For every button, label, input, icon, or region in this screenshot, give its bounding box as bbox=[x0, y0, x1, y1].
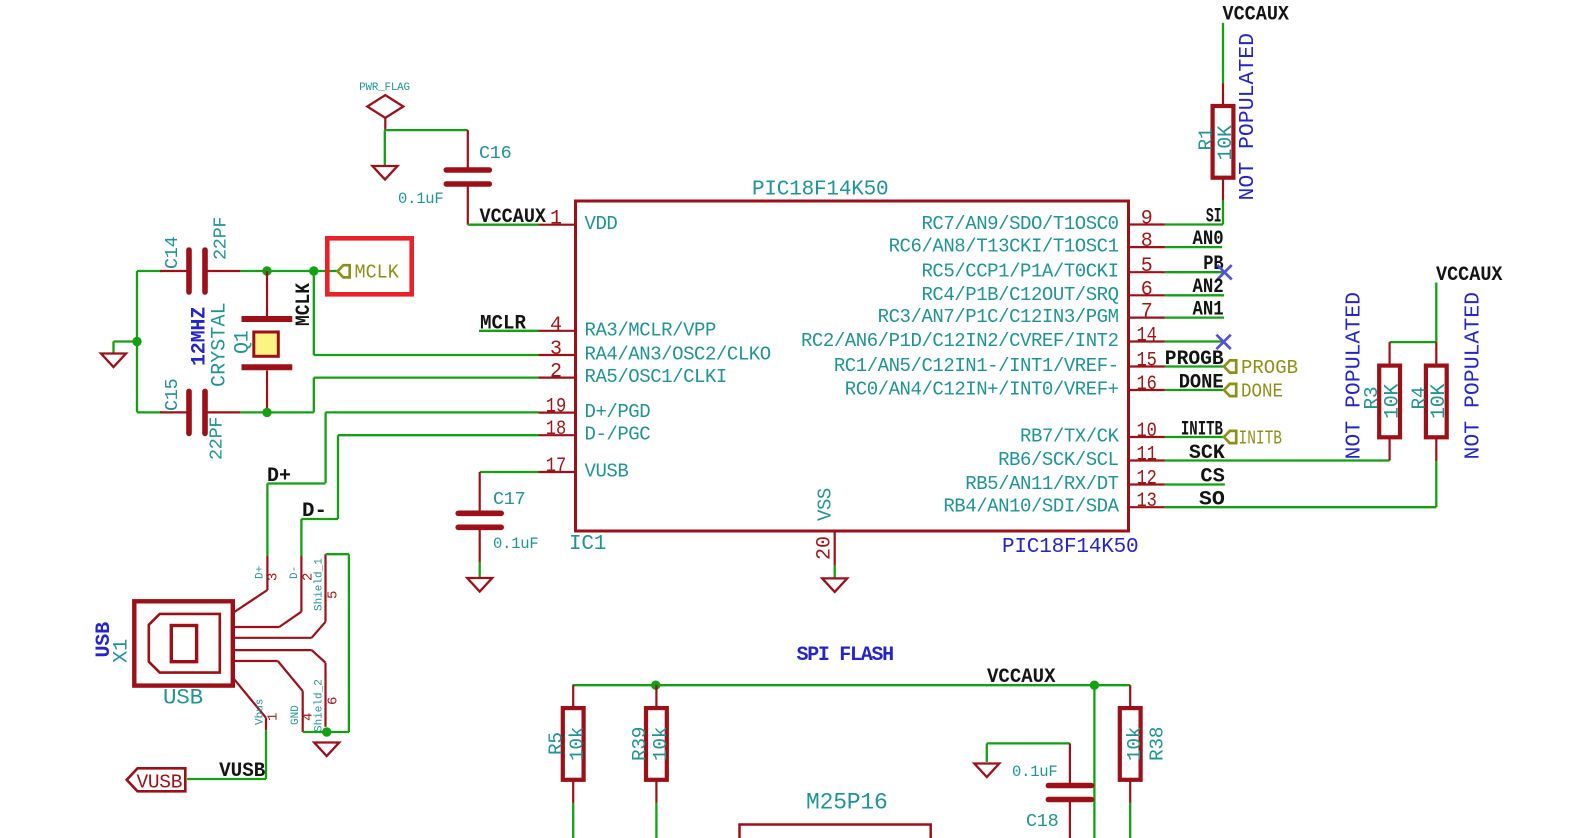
svg-text:RA5/OSC1/CLKI: RA5/OSC1/CLKI bbox=[585, 366, 727, 388]
wire PB pin 5 bbox=[1165, 271, 1224, 273]
svg-text:22PF: 22PF bbox=[207, 417, 228, 460]
net label AN2 bbox=[1193, 276, 1224, 299]
pin 3 RA4/AN3/OSC2/CLKO bbox=[539, 338, 771, 366]
svg-text:VCCAUX: VCCAUX bbox=[480, 206, 547, 229]
X1 pin 4 GND bbox=[233, 661, 317, 732]
wire junction to ground bbox=[114, 342, 138, 354]
svg-text:IC1: IC1 bbox=[569, 533, 606, 556]
wire R5 down bbox=[572, 803, 574, 838]
wire D- pin 18 net bbox=[301, 435, 538, 556]
junction VCCAUX M25P16 branch bbox=[1090, 681, 1099, 690]
global label VUSB bbox=[127, 768, 186, 793]
svg-text:7: 7 bbox=[1141, 301, 1153, 324]
junction crystal left ground tap bbox=[132, 337, 141, 346]
wire VCCAUX down to R3 R4 bbox=[1390, 283, 1437, 343]
svg-text:8: 8 bbox=[1141, 230, 1153, 253]
hierarchical label INITB bbox=[1224, 428, 1282, 450]
svg-text:RC4/P1B/C12OUT/SRQ: RC4/P1B/C12OUT/SRQ bbox=[921, 284, 1118, 306]
net label D+ bbox=[267, 465, 291, 488]
svg-text:D+: D+ bbox=[267, 465, 291, 488]
note SPI FLASH bbox=[797, 644, 894, 667]
svg-text:2: 2 bbox=[550, 361, 562, 384]
svg-text:VCCAUX: VCCAUX bbox=[1223, 4, 1290, 27]
capacitor C15 22PF bbox=[137, 379, 240, 460]
svg-text:6: 6 bbox=[326, 697, 342, 705]
svg-text:VDD: VDD bbox=[585, 213, 618, 235]
net label VUSB black bbox=[219, 760, 265, 783]
wire MCLK node down to pin 3 bbox=[314, 271, 539, 355]
svg-text:RC0/AN4/C12IN+/INT0/VREF+: RC0/AN4/C12IN+/INT0/VREF+ bbox=[845, 379, 1119, 401]
svg-text:Shield_1: Shield_1 bbox=[314, 558, 326, 611]
svg-text:MCLR: MCLR bbox=[480, 313, 526, 336]
net label DONE bbox=[1179, 372, 1224, 395]
wire PWR_FLAG to C16 bbox=[385, 129, 468, 131]
svg-text:RA3/MCLR/VPP: RA3/MCLR/VPP bbox=[585, 319, 716, 341]
pin 13 RB4/AN10/SDI/SDA bbox=[943, 490, 1165, 518]
net label CS bbox=[1200, 466, 1225, 489]
pin 9 RC7/AN9/SDO/T1OSC0 bbox=[921, 208, 1164, 236]
capacitor C17 0.1uF bbox=[458, 472, 538, 562]
X1 pin 2 D- bbox=[233, 556, 317, 627]
IC reference IC1 bbox=[569, 533, 606, 556]
X1 pin 6 Shield_2 bbox=[233, 650, 342, 732]
svg-text:3: 3 bbox=[550, 338, 562, 361]
wire pin 17 to C17 bbox=[480, 471, 539, 473]
svg-text:3: 3 bbox=[266, 573, 282, 581]
svg-text:12: 12 bbox=[1136, 468, 1157, 491]
note NOT POPULATED at R3 bbox=[1343, 292, 1367, 460]
svg-text:VSS: VSS bbox=[815, 488, 837, 521]
svg-text:RB7/TX/CK: RB7/TX/CK bbox=[1020, 426, 1120, 448]
junction R39 top bbox=[651, 681, 660, 690]
svg-text:RB6/SCK/SCL: RB6/SCK/SCL bbox=[998, 449, 1119, 471]
junction shield ground bbox=[322, 727, 331, 736]
net label SI bbox=[1206, 206, 1222, 229]
svg-text:USB: USB bbox=[163, 685, 203, 711]
svg-text:C16: C16 bbox=[479, 143, 511, 164]
pin 19 D+/PGD bbox=[539, 396, 651, 424]
resistor R5 10k bbox=[546, 685, 589, 803]
wire D+ pin 19 net bbox=[267, 412, 538, 556]
svg-text:D-: D- bbox=[302, 500, 327, 523]
svg-text:INITB: INITB bbox=[1181, 419, 1223, 442]
hierarchical label PROGB bbox=[1224, 357, 1298, 379]
svg-text:17: 17 bbox=[546, 455, 567, 478]
power flag PWR_FLAG bbox=[359, 82, 410, 130]
svg-text:10: 10 bbox=[1136, 420, 1157, 443]
svg-text:4: 4 bbox=[301, 713, 317, 721]
svg-text:AN1: AN1 bbox=[1193, 299, 1224, 322]
svg-text:M25P16: M25P16 bbox=[806, 790, 888, 816]
svg-text:DONE: DONE bbox=[1241, 381, 1283, 403]
X1 reference X1 bbox=[111, 639, 134, 663]
hierarchical label MCLK bbox=[338, 262, 400, 284]
wire crystal bottom up to pin 2 bbox=[314, 378, 539, 413]
power label VCCAUX at SPI flash bbox=[987, 666, 1056, 689]
X1 pin 3 D+ bbox=[233, 556, 282, 613]
net label VCCAUX at pin 1 bbox=[480, 206, 547, 229]
svg-text:SPI FLASH: SPI FLASH bbox=[797, 644, 894, 667]
pin 20 VSS bottom bbox=[814, 488, 837, 565]
svg-text:0.1uF: 0.1uF bbox=[398, 190, 444, 208]
note NOT POPULATED at R1 bbox=[1236, 33, 1260, 201]
svg-text:10k: 10k bbox=[567, 727, 589, 761]
svg-text:PIC18F14K50: PIC18F14K50 bbox=[752, 179, 888, 202]
pin 18 D-/PGC bbox=[539, 418, 651, 446]
svg-text:1: 1 bbox=[550, 208, 562, 231]
svg-text:RC1/AN5/C12IN1-/INT1/VREF-: RC1/AN5/C12IN1-/INT1/VREF- bbox=[834, 355, 1119, 377]
svg-text:PIC18F14K50: PIC18F14K50 bbox=[1002, 536, 1138, 559]
capacitor C16 0.1uF bbox=[398, 130, 511, 225]
net label PB bbox=[1203, 253, 1224, 276]
svg-text:SCK: SCK bbox=[1189, 442, 1225, 465]
svg-text:AN2: AN2 bbox=[1193, 276, 1224, 299]
svg-text:VUSB: VUSB bbox=[137, 771, 183, 793]
wire SO pin 13 to R4 bbox=[1165, 506, 1436, 508]
junction MCLK branch bbox=[309, 266, 318, 275]
net label SO bbox=[1199, 489, 1225, 512]
IC value label PIC18F14K50 top bbox=[752, 179, 888, 202]
resistor R39 10k bbox=[629, 685, 672, 803]
resistor R1 10K bbox=[1196, 83, 1239, 201]
svg-text:PROGB: PROGB bbox=[1165, 348, 1224, 371]
svg-text:6: 6 bbox=[1141, 278, 1153, 301]
pin 2 RA5/OSC1/CLKI bbox=[539, 361, 727, 389]
svg-text:VCCAUX: VCCAUX bbox=[1436, 264, 1503, 287]
svg-text:RC6/AN8/T13CKI/T1OSC1: RC6/AN8/T13CKI/T1OSC1 bbox=[889, 236, 1119, 258]
svg-text:NOT POPULATED: NOT POPULATED bbox=[1462, 292, 1486, 460]
svg-text:RA4/AN3/OSC2/CLKO: RA4/AN3/OSC2/CLKO bbox=[585, 344, 771, 366]
svg-text:PROGB: PROGB bbox=[1241, 357, 1298, 379]
X1 note USB vertical bbox=[93, 622, 116, 658]
ground GND left of crystal bbox=[101, 354, 126, 368]
svg-text:R39: R39 bbox=[629, 727, 651, 761]
svg-text:19: 19 bbox=[546, 396, 567, 419]
wire DONE pin 16 bbox=[1165, 389, 1224, 391]
svg-text:4: 4 bbox=[550, 314, 562, 337]
wire R38 down bbox=[1129, 803, 1131, 838]
net label D- bbox=[302, 500, 327, 523]
pin 7 RC3/AN7/P1C/C12IN3/PGM bbox=[878, 301, 1165, 329]
svg-text:MCLK: MCLK bbox=[355, 262, 400, 284]
pin 10 RB7/TX/CK bbox=[1020, 420, 1165, 448]
wire INITB pin 10 bbox=[1165, 436, 1224, 438]
IC footprint label PIC18F14K50 bottom bbox=[1002, 536, 1138, 559]
pin 16 RC0/AN4/C12IN+/INT0/VREF+ bbox=[845, 373, 1165, 401]
svg-text:13: 13 bbox=[1136, 490, 1157, 513]
wire VCCAUX to pin 1 bbox=[468, 224, 539, 226]
resistor R38 10k bbox=[1120, 685, 1169, 803]
net label MCLR at pin 4 bbox=[480, 313, 526, 336]
svg-text:SI: SI bbox=[1206, 206, 1222, 229]
svg-text:10K: 10K bbox=[1428, 384, 1451, 419]
wire AN2 pin 6 bbox=[1165, 294, 1224, 296]
svg-text:R38: R38 bbox=[1147, 727, 1169, 761]
svg-text:15: 15 bbox=[1136, 350, 1157, 373]
pin 11 RB6/SCK/SCL bbox=[998, 444, 1165, 472]
pin 1 VDD bbox=[539, 208, 618, 236]
net label AN1 bbox=[1193, 299, 1224, 322]
svg-text:18: 18 bbox=[546, 418, 567, 441]
wire VCCAUX to R1 bbox=[1222, 23, 1224, 83]
svg-text:C15: C15 bbox=[162, 379, 183, 411]
capacitor C18 0.1uF bbox=[1012, 743, 1091, 838]
wire C14 to MCLK node bbox=[240, 270, 338, 272]
wire C18 ground branch bbox=[987, 743, 1070, 762]
svg-text:RB5/AN11/RX/DT: RB5/AN11/RX/DT bbox=[965, 473, 1118, 495]
svg-text:PWR_FLAG: PWR_FLAG bbox=[359, 82, 410, 94]
crystal Q1 12MHZ bbox=[189, 271, 293, 412]
svg-text:RC2/AN6/P1D/C12IN2/CVREF/INT2: RC2/AN6/P1D/C12IN2/CVREF/INT2 bbox=[801, 330, 1119, 352]
ground GND at C18 bbox=[974, 764, 999, 778]
svg-text:D-: D- bbox=[289, 566, 301, 579]
X1 pin 1 Vbus bbox=[233, 678, 282, 731]
svg-text:C18: C18 bbox=[1026, 811, 1058, 832]
svg-text:10K: 10K bbox=[1215, 125, 1238, 160]
svg-text:RC7/AN9/SDO/T1OSC0: RC7/AN9/SDO/T1OSC0 bbox=[921, 213, 1118, 235]
note NOT POPULATED at R4 bbox=[1462, 292, 1486, 460]
svg-text:NOT POPULATED: NOT POPULATED bbox=[1236, 33, 1260, 201]
wire VCCAUX rail SPI flash bbox=[572, 684, 1130, 686]
X1 value USB bbox=[163, 685, 203, 711]
wire left vertical crystal net bbox=[136, 271, 138, 412]
wire VSS to ground bbox=[834, 565, 836, 578]
no-connect X pin 5 bbox=[1217, 265, 1231, 279]
svg-text:INITB: INITB bbox=[1239, 428, 1283, 450]
svg-text:Shield_2: Shield_2 bbox=[314, 679, 326, 732]
highlight box around MCLK bbox=[327, 238, 411, 294]
wire AN0 pin 8 bbox=[1165, 246, 1222, 248]
wire MCLR to pin 4 bbox=[479, 330, 539, 332]
IC U1 PIC18F14K50 body bbox=[576, 201, 1129, 531]
svg-text:D+/PGD: D+/PGD bbox=[585, 401, 651, 423]
wire VCCAUX branch down to M25P16 bbox=[1093, 685, 1095, 838]
svg-text:0.1uF: 0.1uF bbox=[493, 535, 539, 553]
svg-text:DONE: DONE bbox=[1179, 372, 1224, 395]
svg-text:14: 14 bbox=[1136, 325, 1157, 348]
ground GND under PWR_FLAG bbox=[373, 166, 398, 180]
ground GND at VSS bbox=[822, 578, 847, 592]
resistor R3 10K bbox=[1361, 342, 1405, 460]
wire R4 to SO bbox=[1435, 461, 1437, 507]
pin 15 RC1/AN5/C12IN1-/INT1/VREF- bbox=[834, 350, 1165, 378]
svg-text:RB4/AN10/SDI/SDA: RB4/AN10/SDI/SDA bbox=[943, 496, 1119, 518]
wire AN1 pin 7 bbox=[1165, 316, 1224, 318]
svg-text:CS: CS bbox=[1200, 466, 1225, 489]
svg-text:X1: X1 bbox=[111, 639, 134, 663]
svg-text:1: 1 bbox=[266, 713, 282, 721]
svg-text:D-/PGC: D-/PGC bbox=[585, 424, 651, 446]
wire PROGB pin 15 bbox=[1165, 365, 1224, 367]
svg-text:Q1: Q1 bbox=[232, 330, 255, 354]
pin 12 RB5/AN11/RX/DT bbox=[965, 468, 1165, 496]
wire SCK pin 11 to R3 bbox=[1165, 459, 1390, 461]
pin 4 RA3/MCLR/VPP bbox=[539, 314, 716, 342]
pin 17 VUSB bbox=[539, 455, 629, 483]
svg-text:RC5/CCP1/P1A/T0CKI: RC5/CCP1/P1A/T0CKI bbox=[921, 261, 1118, 283]
ground GND under C17 bbox=[467, 578, 492, 592]
X1 pin 5 Shield_1 bbox=[233, 554, 342, 638]
svg-text:5: 5 bbox=[1141, 255, 1153, 278]
net label MCLK vertical bbox=[293, 283, 316, 326]
svg-text:C14: C14 bbox=[162, 236, 183, 269]
svg-text:MCLK: MCLK bbox=[293, 283, 316, 326]
svg-text:22PF: 22PF bbox=[211, 217, 232, 260]
wire PWR_FLAG down to ground bbox=[384, 130, 386, 166]
wire Vbus to VUSB bbox=[187, 730, 266, 779]
svg-text:R5: R5 bbox=[546, 732, 568, 755]
svg-text:20: 20 bbox=[814, 536, 837, 560]
wire CS pin 12 bbox=[1165, 483, 1225, 485]
svg-text:AN0: AN0 bbox=[1193, 228, 1224, 251]
connector X1 USB body bbox=[134, 601, 233, 685]
svg-text:CRYSTAL: CRYSTAL bbox=[209, 302, 232, 387]
svg-text:9: 9 bbox=[1141, 208, 1153, 231]
net label PROGB bbox=[1165, 348, 1224, 371]
svg-text:10k: 10k bbox=[650, 727, 672, 761]
wire R39 down bbox=[655, 803, 657, 838]
wire shield net bbox=[303, 554, 349, 732]
pin 5 RC5/CCP1/P1A/T0CKI bbox=[921, 255, 1164, 283]
svg-text:VUSB: VUSB bbox=[585, 461, 629, 483]
svg-text:16: 16 bbox=[1136, 373, 1157, 396]
svg-text:C17: C17 bbox=[493, 489, 525, 510]
pin 8 RC6/AN8/T13CKI/T1OSC1 bbox=[889, 230, 1165, 258]
net label INITB bbox=[1181, 419, 1223, 442]
junction crystal top at Q1 bbox=[262, 266, 271, 275]
IC M25P16 box top bbox=[740, 790, 931, 838]
power label VCCAUX at R1 bbox=[1223, 4, 1290, 27]
svg-text:10k: 10k bbox=[1124, 727, 1146, 761]
wire crystal bottom to pin 2 riser bbox=[240, 411, 314, 413]
svg-text:11: 11 bbox=[1136, 444, 1157, 467]
svg-text:VUSB: VUSB bbox=[219, 760, 265, 783]
ground GND under shield bbox=[314, 743, 339, 757]
svg-text:10K: 10K bbox=[1382, 384, 1405, 419]
pin 6 RC4/P1B/C12OUT/SRQ bbox=[921, 278, 1164, 306]
svg-text:0.1uF: 0.1uF bbox=[1012, 763, 1058, 781]
hierarchical label DONE bbox=[1224, 381, 1283, 403]
wire C17 to ground bbox=[479, 562, 481, 578]
wire pin 14 bbox=[1165, 340, 1224, 342]
junction crystal bottom at Q1 bbox=[262, 408, 271, 417]
power label VCCAUX at R3 R4 bbox=[1436, 264, 1503, 287]
net label AN0 bbox=[1193, 228, 1224, 251]
svg-text:PB: PB bbox=[1203, 253, 1224, 276]
resistor R4 10K bbox=[1409, 342, 1452, 461]
net label SCK bbox=[1189, 442, 1225, 465]
wire R1 to SI bbox=[1165, 201, 1223, 225]
svg-text:NOT POPULATED: NOT POPULATED bbox=[1343, 292, 1367, 460]
svg-text:5: 5 bbox=[326, 591, 342, 599]
capacitor C14 22PF bbox=[137, 217, 240, 292]
svg-text:RC3/AN7/P1C/C12IN3/PGM: RC3/AN7/P1C/C12IN3/PGM bbox=[878, 306, 1119, 328]
svg-text:SO: SO bbox=[1199, 489, 1225, 512]
no-connect X pin 14 bbox=[1216, 335, 1230, 349]
pin 14 RC2/AN6/P1D/C12IN2/CVREF/INT2 bbox=[801, 325, 1165, 353]
